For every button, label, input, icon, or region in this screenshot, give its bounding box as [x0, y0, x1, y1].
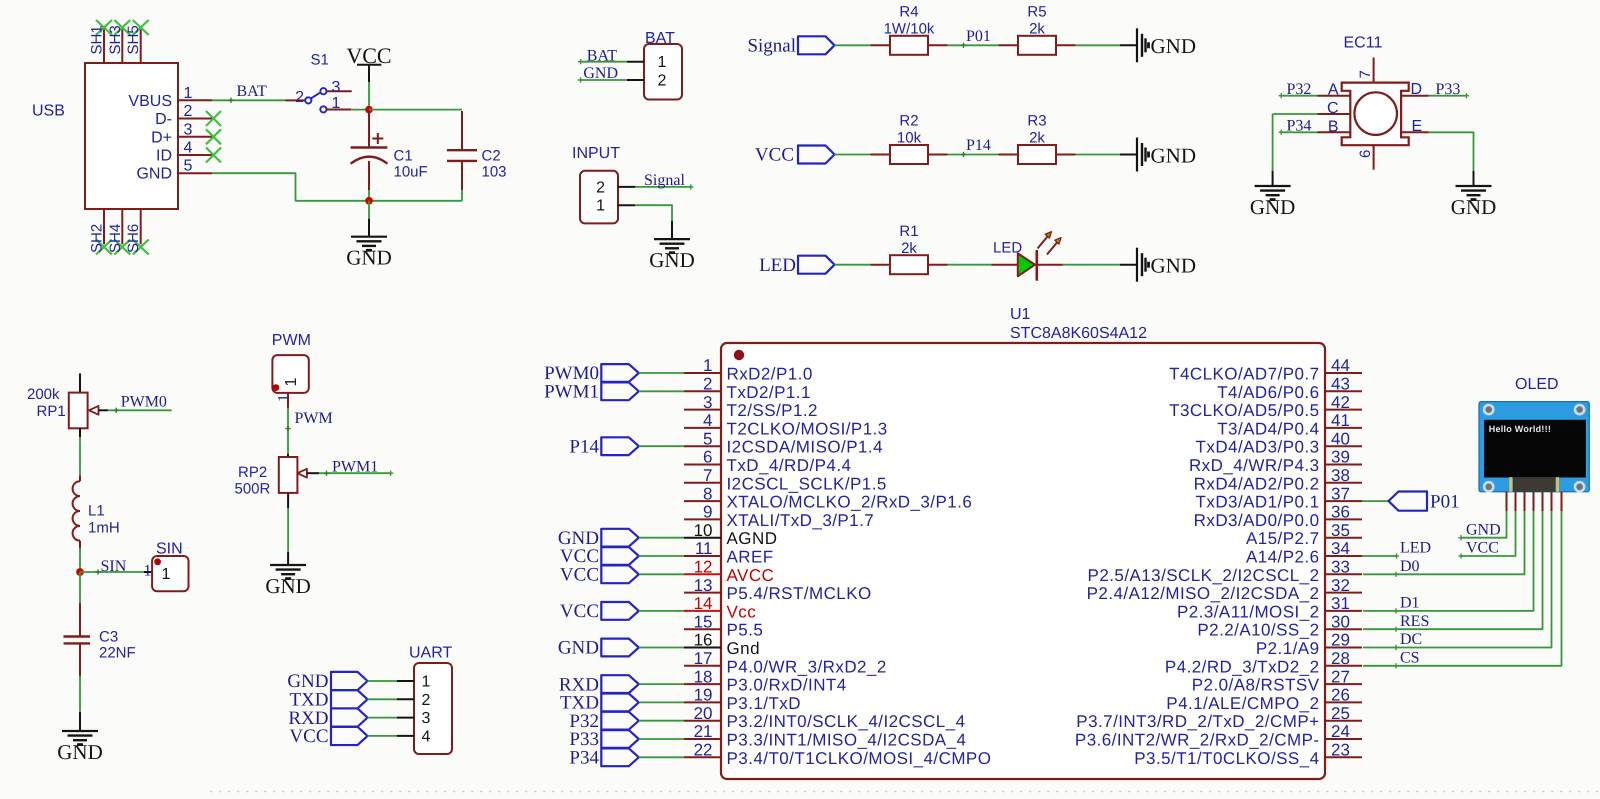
svg-text:GND: GND	[1151, 254, 1197, 278]
wire gnd node to C2	[369, 200, 462, 202]
svg-text:6: 6	[1357, 150, 1374, 158]
svg-text:1: 1	[144, 563, 152, 580]
svg-text:P2.0/A8/RSTSV: P2.0/A8/RSTSV	[1192, 676, 1320, 695]
svg-text:Signal: Signal	[747, 36, 796, 57]
wire TXD to pin 19	[639, 701, 684, 703]
net flag P14 pin 5	[601, 437, 639, 455]
svg-text:P3.7/INT3/RD_2/TxD_2/CMP+: P3.7/INT3/RD_2/TxD_2/CMP+	[1076, 712, 1319, 731]
wire P14 to pin 5	[639, 445, 684, 447]
U1 pin 32 P2.4/A12/MISO_2/I2CSDA_2	[1325, 592, 1362, 594]
OLED pin D0	[1524, 492, 1526, 511]
LED light arrows	[1038, 237, 1048, 249]
BAT pin 1 wire, net BAT	[627, 61, 644, 63]
capacitor C2	[461, 111, 463, 150]
ground	[351, 236, 387, 238]
svg-text:25: 25	[1331, 704, 1350, 723]
svg-text:2k: 2k	[901, 240, 917, 257]
UART pin 4 flag VCC	[331, 727, 368, 745]
svg-text:7: 7	[703, 466, 712, 485]
svg-text:2k: 2k	[1029, 21, 1045, 38]
svg-text:GND: GND	[583, 65, 618, 82]
U1 pin 29 P2.1/A9	[1325, 647, 1362, 649]
wire VCC to pin 14	[639, 610, 684, 612]
U1 pin 9 XTALI/TxD_3/P1.7	[684, 518, 721, 520]
U1 pin 36 RxD3/AD0/P0.0	[1325, 518, 1362, 520]
svg-text:34: 34	[1331, 539, 1350, 558]
USB pin 1 VBUS	[178, 99, 212, 101]
svg-text:R3: R3	[1027, 113, 1046, 130]
svg-text:P2.4/A12/MISO_2/I2CSDA_2: P2.4/A12/MISO_2/I2CSDA_2	[1087, 584, 1320, 603]
svg-text:21: 21	[694, 722, 713, 741]
U1 pin 27 P2.0/A8/RSTSV	[1325, 683, 1362, 685]
svg-text:17: 17	[694, 649, 713, 668]
UART pin 4 wire	[368, 735, 398, 737]
svg-text:A14/P2.6: A14/P2.6	[1246, 548, 1320, 567]
svg-text:TxD3/AD1/P0.1: TxD3/AD1/P0.1	[1196, 493, 1320, 512]
svg-text:P2.1/A9: P2.1/A9	[1256, 639, 1320, 658]
svg-text:P2.3/A11/MOSI_2: P2.3/A11/MOSI_2	[1177, 602, 1320, 621]
U1 pin 4 T2CLKO/MOSI/P1.3	[684, 427, 721, 429]
wire GND to pin 10	[639, 537, 684, 539]
wire LED cathode to ground	[1037, 264, 1063, 266]
svg-text:R4: R4	[899, 4, 918, 21]
svg-text:SH2: SH2	[89, 224, 106, 253]
svg-text:16: 16	[694, 631, 713, 650]
svg-text:1: 1	[596, 198, 605, 215]
USB shield pin SH3	[121, 29, 123, 63]
svg-text:GND: GND	[346, 246, 392, 270]
wire PWM1 to pin 2	[639, 390, 684, 392]
no-connect X	[206, 148, 221, 163]
OLED pin D1	[1533, 492, 1535, 511]
USB pin 4 ID	[178, 154, 212, 156]
svg-text:28: 28	[1331, 649, 1350, 668]
svg-text:GND: GND	[649, 248, 695, 272]
svg-text:T2CLKO/MOSI/P1.3: T2CLKO/MOSI/P1.3	[727, 419, 888, 438]
svg-text:R1: R1	[899, 223, 918, 240]
wire PWM0 to pin 1	[639, 372, 684, 374]
U1 pin 18 P3.0/RxD/INT4	[684, 683, 721, 685]
svg-text:Gnd: Gnd	[727, 639, 760, 658]
svg-text:ID: ID	[156, 148, 172, 165]
svg-text:2: 2	[703, 375, 712, 394]
svg-text:5: 5	[703, 429, 712, 448]
resistor R1	[890, 255, 928, 274]
svg-text:2: 2	[422, 692, 431, 709]
net flag TXD pin 19	[601, 694, 639, 712]
svg-text:Vcc: Vcc	[727, 602, 757, 621]
wire GND to pin 16	[639, 647, 684, 649]
wire OLED D1 to U1 pin 31	[1363, 511, 1534, 611]
wire R2 to R3, net P14	[928, 154, 948, 156]
svg-text:P4.1/ALE/CMPO_2: P4.1/ALE/CMPO_2	[1166, 694, 1319, 713]
svg-text:31: 31	[1331, 594, 1350, 613]
svg-text:E: E	[1412, 118, 1423, 135]
svg-text:T4CLKO/AD7/P0.7: T4CLKO/AD7/P0.7	[1169, 365, 1319, 384]
UART pin 3 wire	[368, 717, 398, 719]
svg-text:P3.0/RxD/INT4: P3.0/RxD/INT4	[727, 676, 847, 695]
svg-text:GND: GND	[136, 166, 172, 183]
U1 pin 20 P3.2/INT0/SCLK_4/I2CSCL_4	[684, 720, 721, 722]
net flag VCC pin 14	[601, 602, 639, 620]
svg-text:44: 44	[1331, 356, 1350, 375]
svg-text:D0: D0	[1400, 558, 1420, 575]
ground	[1255, 185, 1291, 187]
svg-text:P5.5: P5.5	[727, 621, 764, 640]
svg-text:OLED: OLED	[1515, 376, 1559, 393]
UART pin 2 wire	[368, 698, 398, 700]
wire wiper net PWM1	[319, 472, 390, 474]
wire OLED GND	[1461, 511, 1507, 538]
svg-text:P3.5/T1/T0CLKO/SS_4: P3.5/T1/T0CLKO/SS_4	[1134, 749, 1319, 768]
svg-text:1: 1	[332, 95, 341, 112]
wire RP2 to ground	[287, 493, 289, 508]
svg-text:29: 29	[1331, 631, 1350, 650]
svg-text:A: A	[1328, 82, 1339, 99]
svg-text:LED: LED	[993, 239, 1022, 256]
svg-text:P3.4/T0/T1CLKO/MOSI_4/CMPO: P3.4/T0/T1CLKO/MOSI_4/CMPO	[727, 749, 992, 768]
svg-text:22: 22	[694, 741, 713, 760]
svg-text:D-: D-	[155, 111, 172, 128]
svg-text:R5: R5	[1027, 4, 1046, 21]
svg-text:14: 14	[694, 594, 713, 613]
net flag P33 pin 21	[601, 730, 639, 748]
svg-text:RxD4/AD2/P0.2: RxD4/AD2/P0.2	[1194, 474, 1320, 493]
svg-text:41: 41	[1331, 411, 1350, 430]
OLED pin GND	[1506, 492, 1508, 511]
no-connect X	[206, 129, 221, 144]
svg-text:A15/P2.7: A15/P2.7	[1246, 529, 1320, 548]
USB pin 2 D-	[178, 118, 212, 120]
BAT pin 2 wire, net GND	[627, 79, 644, 81]
U1 pin 39 RxD_4/WR/P4.3	[1325, 464, 1362, 466]
net flag PWM1 pin 2	[601, 382, 639, 400]
EC11 pin B	[1318, 131, 1351, 133]
svg-text:3: 3	[703, 393, 712, 412]
EC11 pin D	[1401, 95, 1429, 97]
svg-text:1mH: 1mH	[88, 520, 120, 537]
wire C3 to ground	[79, 676, 81, 712]
svg-text:P3.3/INT1/MISO_4/I2CSDA_4: P3.3/INT1/MISO_4/I2CSDA_4	[727, 731, 967, 750]
net flag PWM0 pin 1	[601, 364, 639, 382]
wire E to ground	[1429, 132, 1474, 171]
wire OLED VCC	[1461, 511, 1516, 556]
svg-text:P01: P01	[966, 28, 991, 45]
net flag VCC	[798, 146, 835, 164]
svg-text:VBUS: VBUS	[128, 93, 172, 110]
IC U1 STC8A8K60S4A12	[721, 343, 1325, 779]
INPUT pin 1 wire to ground	[618, 204, 635, 206]
svg-text:1: 1	[276, 394, 293, 402]
svg-text:30: 30	[1331, 612, 1350, 631]
svg-text:SH5: SH5	[125, 25, 142, 54]
U1 pin 37 TxD3/AD1/P0.1	[1325, 500, 1362, 502]
svg-text:P34: P34	[569, 748, 599, 769]
UART pin 2 flag TXD	[331, 690, 368, 708]
wire LED to R1	[835, 264, 871, 266]
svg-text:USB: USB	[32, 103, 65, 120]
ground	[62, 730, 98, 732]
svg-text:Hello World!!!: Hello World!!!	[1489, 424, 1551, 434]
svg-text:GND: GND	[57, 740, 103, 764]
svg-text:1: 1	[703, 356, 712, 375]
svg-text:RxD2/P1.0: RxD2/P1.0	[727, 365, 813, 384]
svg-text:T4/AD6/P0.6: T4/AD6/P0.6	[1217, 383, 1319, 402]
wire S1 to VCC node	[351, 109, 369, 111]
svg-text:36: 36	[1331, 503, 1350, 522]
svg-text:D1: D1	[1400, 595, 1420, 612]
UART pin 1 wire	[368, 680, 398, 682]
U1 pin 41 T3/AD4/P0.4	[1325, 427, 1362, 429]
svg-text:RxD_4/WR/P4.3: RxD_4/WR/P4.3	[1189, 456, 1320, 475]
RP1 wiper arrow	[89, 406, 99, 415]
svg-text:AGND: AGND	[727, 529, 778, 548]
wire VCC to node	[368, 82, 370, 110]
svg-text:1: 1	[422, 674, 431, 691]
OLED screw holes	[1484, 405, 1493, 414]
wire VBUS to S1, net BAT	[212, 99, 286, 101]
U1 pin 31 P2.3/A11/MOSI_2	[1325, 610, 1362, 612]
U1 pin 5 I2CSDA/MISO/P1.4	[684, 445, 721, 447]
wire wiper net PWM0	[108, 409, 172, 411]
net flag P34 pin 22	[601, 748, 639, 766]
resistor R4	[890, 36, 928, 55]
svg-text:5: 5	[184, 158, 193, 175]
ground	[1136, 138, 1138, 172]
svg-text:VCC: VCC	[1466, 540, 1499, 557]
resistor R5	[1018, 36, 1056, 55]
ground	[654, 238, 690, 240]
junction node VCC	[365, 106, 373, 114]
svg-text:24: 24	[1331, 722, 1350, 741]
U1 pin 17 P4.0/WR_3/RxD2_2	[684, 665, 721, 667]
USB shield pin SH2	[103, 209, 105, 244]
svg-text:4: 4	[184, 140, 193, 157]
svg-text:R2: R2	[899, 113, 918, 130]
OLED screen	[1485, 420, 1586, 477]
svg-text:VCC: VCC	[289, 726, 328, 747]
U1 pin 25 P3.7/INT3/RD_2/TxD_2/CMP+	[1325, 720, 1362, 722]
U1 pin 21 P3.3/INT1/MISO_4/I2CSDA_4	[684, 738, 721, 740]
OLED pin DC	[1551, 492, 1553, 511]
no-connect X	[206, 111, 221, 126]
svg-text:T2/SS/P1.2: T2/SS/P1.2	[727, 401, 818, 420]
svg-text:P34: P34	[1287, 117, 1312, 134]
OLED pin CS	[1561, 492, 1563, 511]
U1 pin 28 P4.2/RD_3/TxD2_2	[1325, 665, 1362, 667]
wire R4 to R5, net P01	[928, 44, 948, 46]
LED diode D1	[1018, 253, 1035, 276]
svg-text:VCC: VCC	[560, 601, 599, 622]
svg-text:40: 40	[1331, 429, 1350, 448]
svg-text:P2.2/A10/SS_2: P2.2/A10/SS_2	[1197, 621, 1319, 640]
wire pin 34 net LED	[1362, 555, 1397, 557]
wire OLED CS to U1 pin 28	[1363, 511, 1562, 666]
svg-text:43: 43	[1331, 375, 1350, 394]
svg-text:BAT: BAT	[587, 47, 617, 64]
svg-text:CS: CS	[1400, 650, 1420, 667]
svg-text:6: 6	[703, 448, 712, 467]
svg-text:200k: 200k	[27, 386, 60, 403]
net flag LED	[798, 256, 835, 274]
svg-text:D+: D+	[151, 129, 172, 146]
ground	[270, 564, 306, 566]
svg-text:T3CLKO/AD5/P0.5: T3CLKO/AD5/P0.5	[1169, 401, 1319, 420]
svg-text:C: C	[1327, 100, 1339, 117]
svg-text:P4.2/RD_3/TxD2_2: P4.2/RD_3/TxD2_2	[1165, 657, 1320, 676]
svg-text:I2CSDA/MISO/P1.4: I2CSDA/MISO/P1.4	[727, 438, 883, 457]
U1 pin 16 Gnd	[684, 647, 721, 649]
svg-text:1: 1	[184, 85, 193, 102]
USB shield pin SH4	[121, 209, 123, 244]
svg-text:C3: C3	[99, 629, 118, 646]
svg-text:1W/10k: 1W/10k	[884, 21, 935, 38]
svg-text:T3/AD4/P0.4: T3/AD4/P0.4	[1217, 419, 1319, 438]
svg-text:GND: GND	[1151, 34, 1197, 58]
net flag VCC pin 11	[601, 547, 639, 565]
svg-text:37: 37	[1331, 484, 1350, 503]
svg-text:SIN: SIN	[156, 541, 183, 558]
svg-text:15: 15	[694, 612, 713, 631]
svg-text:PWM: PWM	[295, 410, 333, 427]
capacitor C1	[368, 110, 370, 148]
U1 pin 15 P5.5	[684, 628, 721, 630]
svg-text:7: 7	[1357, 70, 1374, 78]
svg-text:27: 27	[1331, 667, 1350, 686]
U1 pin 6 TxD_4/RD/P4.4	[684, 464, 721, 466]
svg-text:500R: 500R	[235, 481, 271, 498]
wire C1 to gnd node	[368, 190, 370, 201]
wire VCC to pin 12	[639, 573, 684, 575]
ground	[1136, 28, 1138, 62]
svg-text:20: 20	[694, 704, 713, 723]
svg-text:10k: 10k	[897, 130, 922, 147]
UART pin 3 flag RXD	[331, 708, 368, 726]
USB connector J-USB	[85, 63, 178, 209]
U1 pin 35 A15/P2.7	[1325, 537, 1362, 539]
wire Signal to R4	[835, 44, 871, 46]
wire PWM to RP2, net PWM	[287, 393, 289, 409]
svg-text:9: 9	[703, 503, 712, 522]
svg-text:C1: C1	[394, 148, 413, 165]
svg-text:U1: U1	[1010, 306, 1031, 323]
svg-text:P14: P14	[966, 137, 991, 154]
svg-text:LED: LED	[1400, 540, 1431, 557]
INPUT pin 2 wire, net Signal	[618, 186, 635, 188]
OLED pin RES	[1542, 492, 1544, 511]
U1 pin 1 RxD2/P1.0	[684, 372, 721, 374]
svg-text:LED: LED	[759, 255, 796, 276]
net flag P32 pin 20	[601, 712, 639, 730]
USB pin 5 GND	[178, 172, 212, 174]
wire node to SIN	[80, 571, 144, 573]
junction node GND	[365, 197, 373, 205]
svg-text:EC11: EC11	[1344, 35, 1383, 52]
svg-text:2: 2	[295, 89, 304, 106]
U1 pin 8 XTALO/MCLKO_2/RxD_3/P1.6	[684, 500, 721, 502]
svg-text:10uF: 10uF	[394, 164, 428, 181]
svg-text:35: 35	[1331, 521, 1350, 540]
wire node to C3	[79, 572, 81, 603]
svg-text:1: 1	[658, 54, 667, 71]
U1 pin 13 P5.4/RST/MCLKO	[684, 592, 721, 594]
wire R3 to ground	[1056, 154, 1076, 156]
wire P33 to pin 21	[639, 738, 684, 740]
wire pin 37 to P01	[1362, 500, 1389, 502]
svg-text:PWM1: PWM1	[332, 458, 378, 475]
svg-text:P14: P14	[569, 436, 599, 457]
svg-text:Signal: Signal	[644, 172, 685, 189]
net flag Signal	[798, 36, 835, 54]
EC11 pin 7	[1373, 58, 1375, 83]
resistor R2	[890, 145, 928, 164]
svg-text:39: 39	[1331, 448, 1350, 467]
wire P32 to A	[1281, 95, 1317, 97]
svg-text:23: 23	[1331, 741, 1350, 760]
svg-text:VCC: VCC	[560, 565, 599, 586]
svg-text:2: 2	[596, 179, 605, 196]
svg-text:12: 12	[694, 558, 713, 577]
USB pin 3 D+	[178, 136, 212, 138]
svg-text:33: 33	[1331, 558, 1350, 577]
potentiometer RP2	[279, 457, 298, 493]
wire node to ground	[368, 201, 370, 219]
wire OLED RES to U1 pin 30	[1363, 511, 1543, 629]
svg-text:STC8A8K60S4A12: STC8A8K60S4A12	[1010, 325, 1147, 342]
wire P34 to B	[1281, 131, 1317, 133]
U1 pin 30 P2.2/A10/SS_2	[1325, 628, 1362, 630]
svg-text:XTALO/MCLKO_2/RxD_3/P1.6: XTALO/MCLKO_2/RxD_3/P1.6	[727, 493, 973, 512]
svg-text:RxD3/AD0/P0.0: RxD3/AD0/P0.0	[1194, 511, 1320, 530]
potentiometer RP1	[79, 373, 81, 392]
svg-text:AREF: AREF	[727, 548, 774, 567]
OLED pin VCC	[1515, 492, 1517, 511]
svg-text:4: 4	[703, 411, 712, 430]
U1 pin 7 I2CSCL_SCLK/P1.5	[684, 482, 721, 484]
wire C to ground	[1273, 113, 1318, 115]
svg-text:L1: L1	[88, 503, 105, 520]
net flag P01	[1389, 492, 1428, 511]
svg-text:GND: GND	[1250, 195, 1296, 219]
svg-text:38: 38	[1331, 466, 1350, 485]
svg-text:GND: GND	[1451, 195, 1497, 219]
wire R5 to ground	[1056, 44, 1076, 46]
svg-text:1: 1	[283, 378, 300, 387]
wire OLED D0 to U1 pin 33	[1363, 511, 1525, 574]
svg-text:P3.6/INT2/WR_2/RxD_2/CMP-: P3.6/INT2/WR_2/RxD_2/CMP-	[1075, 731, 1320, 750]
svg-text:SH3: SH3	[107, 25, 124, 54]
U1 pin 2 TxD2/P1.1	[684, 390, 721, 392]
svg-text:INPUT: INPUT	[572, 145, 620, 162]
capacitor C3	[79, 603, 81, 637]
U1 pin 10 AGND	[684, 537, 721, 539]
svg-text:2: 2	[658, 73, 667, 90]
wire C2 bottom	[461, 190, 463, 201]
svg-text:PWM: PWM	[272, 332, 311, 349]
svg-text:2: 2	[184, 103, 193, 120]
svg-text:4: 4	[422, 728, 431, 745]
USB shield pin SH1	[103, 29, 105, 63]
ground	[1456, 185, 1492, 187]
RP2 wiper arrow	[297, 469, 307, 478]
U1 pin 11 AREF	[684, 555, 721, 557]
inductor L1	[79, 475, 81, 481]
wire VCC to pin 11	[639, 555, 684, 557]
svg-text:10: 10	[694, 521, 713, 540]
wire RXD to pin 18	[639, 683, 684, 685]
svg-text:P4.0/WR_3/RxD2_2: P4.0/WR_3/RxD2_2	[727, 657, 887, 676]
svg-text:B: B	[1328, 118, 1339, 135]
